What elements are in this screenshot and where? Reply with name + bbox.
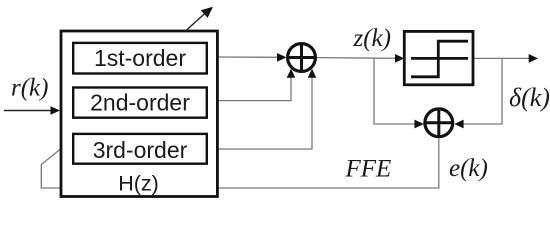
wire 3rd-order output to adder1 bottom-right	[217, 76, 312, 149]
wire 1st-order output to adder1	[217, 56, 284, 58]
svg-text:δ(k): δ(k)	[509, 83, 550, 112]
adder U1 (FFE summer)	[288, 44, 316, 72]
wire 2nd-order output to adder1 bottom-left	[217, 76, 291, 101]
svg-text:e(k): e(k)	[449, 155, 488, 182]
svg-text:H(z): H(z)	[118, 172, 159, 196]
wire delta tap down to adder2 right	[462, 58, 502, 124]
svg-text:z(k): z(k)	[353, 25, 391, 52]
slicer box (decision device)	[404, 31, 473, 84]
3rd-order sub-box	[73, 134, 207, 164]
1st-order sub-box	[73, 43, 207, 74]
2nd-order sub-box	[73, 88, 207, 118]
slicer step symbol	[411, 57, 468, 60]
wire slicer output to right edge	[473, 57, 530, 59]
wire z(k) tap down to adder2	[374, 58, 416, 124]
svg-text:FFE: FFE	[345, 156, 392, 183]
input arrow r(k)	[4, 110, 52, 112]
adder U2 (error summer)	[425, 109, 453, 137]
wire z(k) adder1 to slicer	[317, 57, 398, 60]
svg-text:3rd-order: 3rd-order	[93, 137, 188, 163]
H(z) filter big box	[61, 31, 217, 197]
svg-text:r(k): r(k)	[11, 75, 48, 102]
wire e(k) feedback bottom path (adder2 down, left along bottom, up, diagonal into H(z))	[41, 139, 439, 189]
svg-text:2nd-order: 2nd-order	[90, 90, 190, 116]
top diagonal arrow out of H(z)	[186, 12, 207, 31]
svg-text:1st-order: 1st-order	[94, 45, 186, 71]
